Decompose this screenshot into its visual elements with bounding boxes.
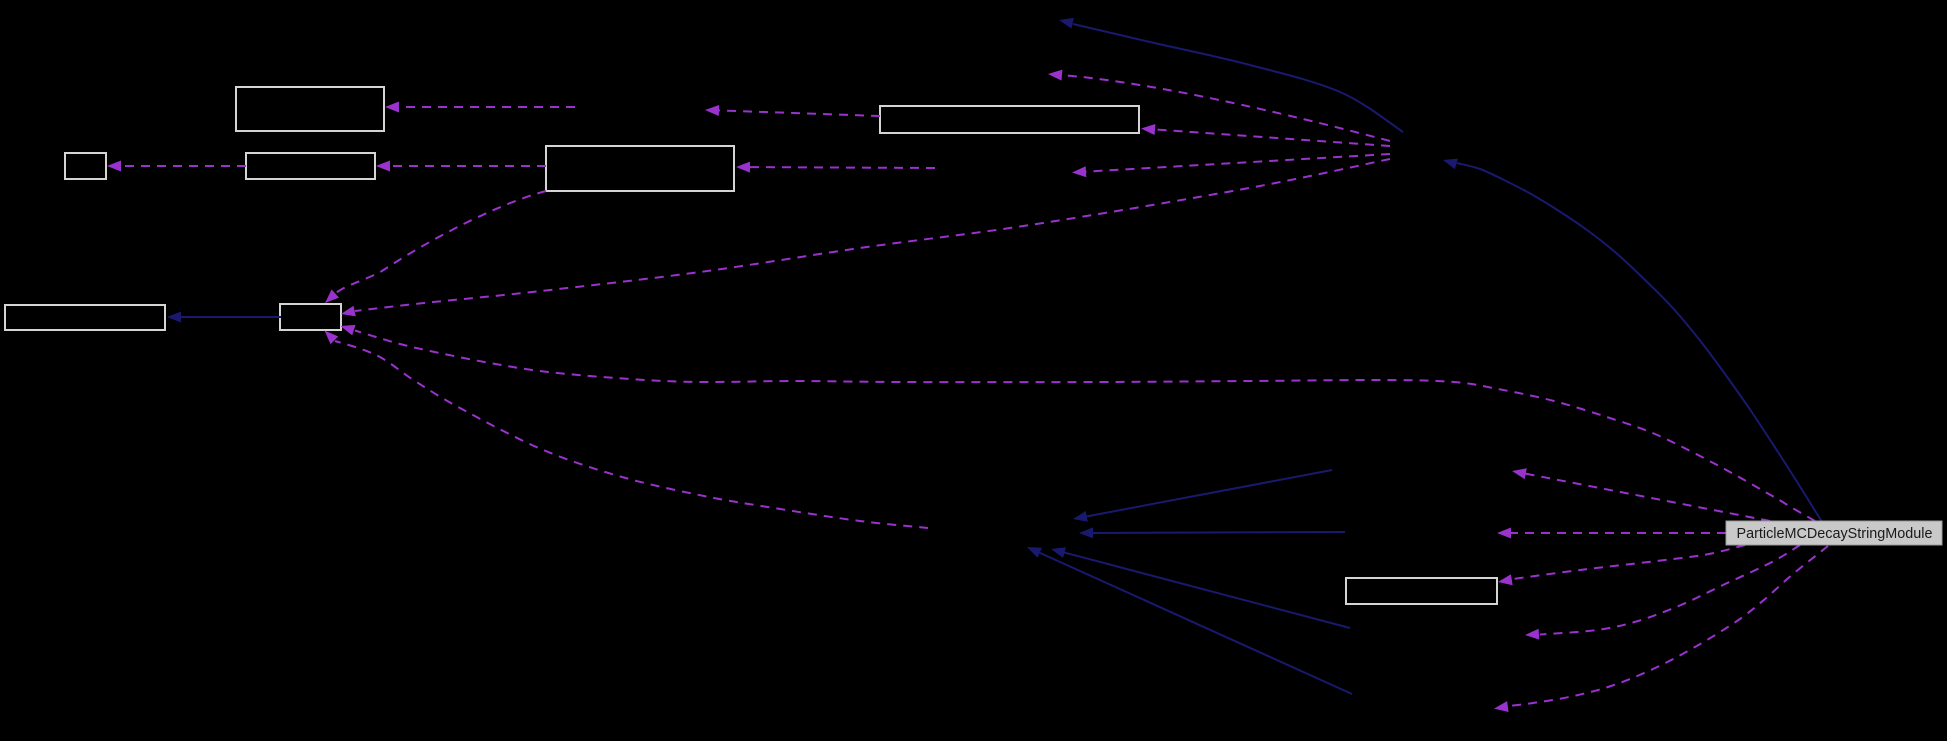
edge blue solid curve from hidden node X to top hidden node <box>1073 24 1403 132</box>
svg-text:ParticleMCDecayStringModule: ParticleMCDecayStringModule <box>1737 525 1933 542</box>
edge dashed hidden node Y to box A arrowhead <box>385 102 399 113</box>
edge dashed box D to box G arrowhead <box>325 290 339 304</box>
edge dashed module to hidden W4 arrowhead <box>1494 701 1509 712</box>
edge dashed module to hidden W3 <box>1540 545 1800 635</box>
edge blue solid 2 to hidden node V arrowhead <box>1079 527 1093 538</box>
edge dashed hidden V to box G (curve) <box>335 341 928 528</box>
edge dashed hidden X to hidden Z1 arrowhead <box>1048 70 1062 81</box>
node box G (small middle) <box>280 304 341 330</box>
edge dashed module to hidden W3 arrowhead <box>1525 629 1539 640</box>
edge dashed box C to box B arrowhead <box>107 161 121 172</box>
edge dashed hidden X to box E <box>1154 129 1390 146</box>
edge dashed box C to box B <box>120 165 246 167</box>
edge dashed box D to box C <box>389 165 546 167</box>
edge dashed box E to hidden node Y <box>718 110 880 116</box>
node ParticleMCDecayStringModule (main node) <box>1726 521 1942 545</box>
edge blue solid 2 to hidden node V <box>1092 532 1345 533</box>
edge dashed box D to box G <box>335 191 546 294</box>
edge blue solid 1 to hidden node V <box>1086 470 1332 517</box>
edge dashed box E to hidden node Y arrowhead <box>705 105 719 116</box>
edge dashed hidden X to box G arrowhead <box>341 306 356 317</box>
edge blue solid 3 to hidden node V <box>1064 552 1350 628</box>
edge dashed module to hidden W1 <box>1525 474 1770 522</box>
edge dashed module to box H arrowhead <box>1498 574 1513 585</box>
edge dashed box D to box C arrowhead <box>376 161 390 172</box>
edge dashed hidden node Y to box A <box>398 106 575 108</box>
edge dashed hidden V to box G arrowhead <box>325 331 339 345</box>
edge dashed hidden X to hidden Z1 <box>1061 75 1390 141</box>
edge dashed hidden X to box G <box>355 159 1390 311</box>
edge dashed module to box G (long curve) <box>355 331 1815 522</box>
edge blue solid 3 to hidden node V arrowhead <box>1051 547 1066 558</box>
node box B (small far left) <box>65 153 106 179</box>
edge dashed hidden X to hidden Z2 <box>1085 154 1390 172</box>
node box H (bottom middle) <box>1346 578 1497 604</box>
edge dashed hidden node Z2 to box D <box>749 166 935 169</box>
node box C <box>246 153 375 179</box>
arrowhead blue into hidden node X <box>1443 159 1458 170</box>
edge dashed hidden node Z2 to box D arrowhead <box>736 162 750 173</box>
edge blue solid G to F <box>180 316 281 318</box>
edge dashed module to hidden W4 <box>1508 546 1828 706</box>
edge blue solid 4 to hidden node V <box>1039 552 1352 694</box>
edge blue solid from ParticleMCDecayStringModule to hidden node X <box>1457 163 1822 522</box>
arrowhead blue top <box>1059 18 1074 29</box>
edge blue solid 4 to hidden node V arrowhead <box>1027 547 1042 558</box>
edge dashed module to box H <box>1513 545 1745 579</box>
edge dashed hidden X to hidden Z2 arrowhead <box>1072 166 1086 177</box>
edge dashed module to hidden W1 arrowhead <box>1512 468 1527 479</box>
edge blue solid 1 to hidden node V arrowhead <box>1073 511 1088 522</box>
node box F (wide middle left) <box>5 305 165 330</box>
node box D (2-line) <box>546 146 734 191</box>
arrowhead blue at box F <box>167 312 181 323</box>
edge dashed module to box G arrowhead <box>341 325 356 336</box>
edge dashed hidden X to box E arrowhead <box>1141 124 1155 135</box>
node box A (top-left, 2-line) <box>236 87 384 131</box>
node box E (wide top middle) <box>880 106 1139 133</box>
edge dashed module to hidden W2 <box>1510 532 1726 534</box>
edge dashed module to hidden W2 arrowhead <box>1497 528 1511 539</box>
